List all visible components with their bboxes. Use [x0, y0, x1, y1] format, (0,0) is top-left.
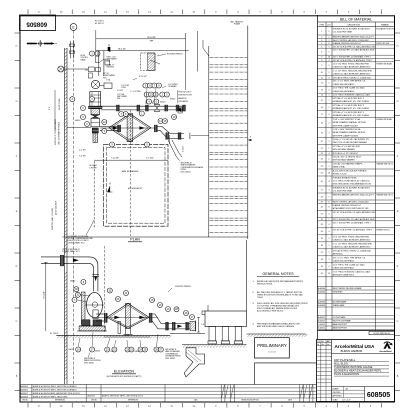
- svg-text:USING E70XX ELECTRODES AND IS: USING E70XX ELECTRODES AND IS TO BE GAS: [257, 293, 303, 296]
- svg-text:G: G: [16, 100, 18, 103]
- svg-text:REMARK: REMARK: [381, 23, 389, 26]
- ArcelorMittal logo mark: [384, 342, 391, 349]
- svg-text:THICKNESS ISOTOPE GAUGE: THICKNESS ISOTOPE GAUGE: [334, 365, 373, 369]
- svg-text:PKG.: PKG.: [107, 61, 111, 63]
- svg-text:2: 2: [329, 31, 330, 33]
- plan: trench vertical line right: [197, 31, 199, 72]
- plan: trench column hatched: [148, 53, 155, 70]
- elev: flow arrow on inlet pipe: [73, 259, 79, 262]
- svg-text:DWG. 608511: DWG. 608511: [84, 362, 94, 364]
- plan: existing trench dashed box: [141, 53, 155, 70]
- svg-text:34: 34: [321, 231, 323, 233]
- elev: hx right flange: [149, 313, 150, 322]
- svg-text:FLANGE, WN DWG. 8220-027-02: FLANGE, WN DWG. 8220-027-02: [333, 204, 361, 207]
- svg-text:4: 4: [329, 224, 330, 226]
- title block outer: [317, 340, 395, 402]
- svg-text:10-31-08: 10-31-08: [268, 352, 275, 354]
- svg-text:36: 36: [321, 245, 323, 247]
- svg-text:PIPING: PIPING: [181, 169, 187, 171]
- plan: balloon on wall line: [70, 97, 75, 102]
- svg-text:14: 14: [321, 95, 323, 97]
- svg-text:DO NOT PRINT No 145: DO NOT PRINT No 145: [373, 333, 390, 335]
- plan: pipe flanges: [116, 105, 117, 111]
- svg-text:CONTROL: CONTROL: [80, 57, 88, 59]
- mill tables: top angled lead: [203, 40, 209, 56]
- svg-text:CLASS 3000, ASTM A105: CLASS 3000, ASTM A105: [333, 259, 354, 262]
- svg-text:MODEL X-TL/20: MODEL X-TL/20: [333, 174, 347, 176]
- svg-text:39: 39: [321, 266, 323, 268]
- svg-text:C: C: [397, 320, 399, 323]
- svg-text:A-60511: A-60511: [88, 395, 96, 398]
- svg-text:1: 1: [329, 219, 330, 221]
- svg-text:1 1/2" 150 THD'D. FLNGD, WELDI: 1 1/2" 150 THD'D. FLNGD, WELDING FRM,: [333, 63, 370, 65]
- svg-text:DWG. 608511: DWG. 608511: [165, 358, 175, 360]
- svg-text:4: 4: [329, 60, 330, 62]
- svg-text:ALL WELDING PER AWS D1.1, LATE: ALL WELDING PER AWS D1.1, LATEST EDITION: [257, 291, 302, 294]
- svg-text:ASTM A197, ASME B16.3: ASTM A197, ASME B16.3: [333, 273, 354, 276]
- svg-text:3/4" DIA. 90 THD'D. UNION, CL,: 3/4" DIA. 90 THD'D. UNION, CL, CLASS 200…: [333, 76, 372, 79]
- svg-text:8: 8: [321, 60, 322, 62]
- svg-text:ArcelorMittal: ArcelorMittal: [379, 350, 392, 353]
- svg-text:608510: 608510: [69, 349, 74, 351]
- svg-text:EXISTING TRENCH: EXISTING TRENCH: [167, 54, 183, 56]
- elev: detail B chute polygon: [184, 348, 204, 377]
- title block bottom section: [332, 386, 395, 388]
- plan: dim line above accumulator: [94, 159, 168, 161]
- svg-text:BLOWER BASE: BLOWER BASE: [333, 301, 347, 304]
- bottom ruler ticks: [27, 403, 29, 408]
- svg-text:3: 3: [321, 40, 322, 42]
- elev: vert dashed centerline through blower: [104, 246, 106, 332]
- svg-text:1 1/2" FLEX: 1 1/2" FLEX: [121, 85, 129, 87]
- plan: blower motor rect: [90, 92, 101, 107]
- elev: balloon near trench: [174, 307, 179, 312]
- svg-text:1 1/2" THD'D. TEE, CLASS 150,: 1 1/2" THD'D. TEE, CLASS 150, GALV,: [333, 87, 366, 90]
- svg-text:608510: 608510: [160, 101, 165, 103]
- svg-text:1 1/2" THD'D. 90 ELBOW, CLASS: 1 1/2" THD'D. 90 ELBOW, CLASS 150, GALV: [333, 94, 371, 97]
- svg-text:A-60505: A-60505: [20, 389, 28, 392]
- svg-text:608510: 608510: [70, 280, 75, 282]
- svg-text:19: 19: [321, 132, 323, 134]
- elev: pipe into hx left: [96, 313, 104, 315]
- BOM left edge: [317, 15, 319, 331]
- svg-text:29: 29: [321, 202, 323, 204]
- svg-text:4: 4: [329, 266, 330, 268]
- svg-text:11: 11: [321, 77, 323, 79]
- svg-text:1 1/2" THD'D. HOSE VALVE, W. C: 1 1/2" THD'D. HOSE VALVE, W. CLASS 150,: [333, 180, 370, 183]
- svg-text:PER HEAT EXCHANGER INSTALLATIO: PER HEAT EXCHANGER INSTALLATION, USE: [257, 322, 300, 325]
- svg-text:2: 2: [329, 72, 330, 74]
- svg-text:H: H: [16, 45, 18, 48]
- svg-text:1/2" OIL: 1/2" OIL: [103, 73, 109, 75]
- empty box below preliminary: [255, 363, 317, 385]
- svg-text:2: 2: [329, 158, 330, 160]
- svg-text:1 1/2" PIPING: 1 1/2" PIPING: [168, 84, 178, 86]
- svg-text:20"/ 2" SCH 40 PIPE, CS, GALV,: 20"/ 2" SCH 40 PIPE, CS, GALV, ASTM A53,…: [333, 218, 375, 221]
- svg-text:METAL FRAMING CHANNEL, ØP1000T: METAL FRAMING CHANNEL, ØP1000T,: [333, 121, 367, 124]
- elev: left dim vertical 8-6: [45, 262, 47, 331]
- svg-text:ATTACHMENT BOLTS SUPPLIED BY V: ATTACHMENT BOLTS SUPPLIED BY VND: [333, 207, 369, 210]
- svg-text:DAMS & SEAL: DAMS & SEAL: [333, 166, 345, 169]
- svg-text:24: 24: [321, 165, 323, 167]
- elev: blower center line: [85, 304, 104, 306]
- svg-text:2" x 1 1/2" THD'D. REDUCER, WE: 2" x 1 1/2" THD'D. REDUCER, WELDING SPRL: [333, 243, 372, 245]
- svg-text:20"/ 3/4" SCH 40 PIPE, CS, AST: 20"/ 3/4" SCH 40 PIPE, CS, ASTM A53, TYP…: [333, 59, 373, 62]
- north arrow: [27, 43, 55, 45]
- svg-text:1 1/2" THD'D. 90 ELBOW, CLASS: 1 1/2" THD'D. 90 ELBOW, CLASS 150, GALV: [333, 270, 371, 273]
- elev: dim bottom 5-10: [104, 336, 150, 338]
- svg-text:2: 2: [321, 36, 322, 38]
- svg-text:30: 30: [321, 207, 323, 209]
- svg-text:33: 33: [321, 224, 323, 226]
- plan: left wall double line w hatch: [64, 48, 66, 384]
- BOM tag rows group1: [318, 286, 395, 288]
- svg-text:9: 9: [321, 65, 322, 67]
- svg-text:608510: 608510: [95, 351, 100, 353]
- svg-text:BLWR & HX EXCH. REPL, SECTIONS: BLWR & HX EXCH. REPL, SECTIONS: [33, 396, 68, 398]
- svg-text:GENERAL NOTES: GENERAL NOTES: [262, 272, 294, 276]
- BOM tag rows group2: [318, 299, 395, 301]
- svg-text:REFERENCES: REFERENCES: [55, 400, 65, 402]
- svg-text:ACCORDINGLY PER MI.25.1: ACCORDINGLY PER MI.25.1: [257, 310, 284, 313]
- plan: leaders from balloons to pipe: [146, 88, 147, 104]
- svg-text:OUTLET BASE: OUTLET BASE: [333, 316, 346, 319]
- svg-text:1: 1: [329, 189, 330, 191]
- do not print strip: [369, 332, 395, 335]
- elev: hx left flange: [104, 313, 105, 322]
- svg-text:BLOWER & HEAT EXCHANGER REPL.: BLOWER & HEAT EXCHANGER REPL.: [334, 369, 382, 373]
- column grid line E dashed full height: [73, 30, 75, 384]
- svg-text:INSTRUCTIONS.: INSTRUCTIONS.: [257, 284, 273, 286]
- svg-text:A-60504: A-60504: [318, 301, 325, 304]
- BOM column verticals: [325, 22, 327, 331]
- svg-text:12: 12: [321, 83, 323, 85]
- plan: leader from pipe end to rolltable: [191, 135, 209, 137]
- svg-text:WITH PIPE CLAMP P1109-EG: WITH PIPE CLAMP P1109-EG: [333, 134, 359, 137]
- svg-text:LINE TO REMAIN IN PLACE: LINE TO REMAIN IN PLACE: [58, 121, 61, 145]
- elev: inlet support column hatched: [82, 292, 86, 324]
- svg-text:7'-4 1/8": 7'-4 1/8": [79, 156, 86, 158]
- preliminary stamp box: [255, 338, 290, 358]
- plan: hx right flange: [154, 125, 155, 132]
- svg-text:20: 20: [321, 141, 323, 143]
- title block divider under company: [332, 353, 395, 355]
- elev: foundation pad under blower: [77, 330, 107, 332]
- svg-text:ArcelorMittal USA: ArcelorMittal USA: [335, 344, 375, 349]
- elev: flange pair on vertical pipe: [92, 274, 99, 276]
- svg-text:HEAT EXCHANGER, AIR DWG. 8440-: HEAT EXCHANGER, AIR DWG. 8440-CCX-01 FT: [333, 194, 375, 197]
- plan: accumulator dashed rect: [104, 144, 168, 226]
- svg-text:WITH PIPE CLAMP P1111-EG: WITH PIPE CLAMP P1111-EG: [333, 124, 359, 127]
- svg-text:22: 22: [321, 153, 323, 155]
- svg-text:1: 1: [329, 100, 330, 102]
- mill tables: left vertical: [208, 46, 210, 237]
- svg-text:1: 1: [329, 259, 330, 261]
- elev: silencer hatched end: [190, 322, 196, 331]
- svg-text:ELEVATION: ELEVATION: [114, 370, 134, 374]
- svg-text:8'-6 3/4": 8'-6 3/4": [44, 291, 46, 298]
- svg-text:1: 1: [329, 36, 330, 38]
- svg-text:16: 16: [321, 107, 323, 109]
- elev: ground line main: [56, 334, 170, 336]
- plan: center dashed line vertical: [129, 110, 131, 236]
- plan: blower casing: [91, 109, 100, 115]
- plan: second dim line: [96, 50, 189, 52]
- svg-text:PRELIMINARY: PRELIMINARY: [257, 343, 287, 348]
- BOM tag rows group3: [318, 315, 395, 317]
- plan: section arrow A: [107, 186, 110, 192]
- svg-text:608510: 608510: [170, 99, 175, 101]
- svg-text:4: 4: [329, 181, 330, 183]
- svg-text:BILL OF MATERIAL: BILL OF MATERIAL: [340, 18, 372, 22]
- svg-text:CLASS 3000, ASTM A105: CLASS 3000, ASTM A105: [333, 83, 354, 86]
- svg-text:INSTALL ALL ANCHORS PER MANUFA: INSTALL ALL ANCHORS PER MANUFACTURER'S: [257, 280, 304, 283]
- svg-text:CLASS 150, GALV, ASTM A197, AS: CLASS 150, GALV, ASTM A197, ASME B16.3: [333, 65, 371, 68]
- svg-text:EXPANSION ANCHOR, STL. ZINC PL: EXPANSION ANCHOR, STL. ZINC PLATED: [333, 100, 370, 103]
- svg-text:FLEXIBLE EXHAUST HOSE,: FLEXIBLE EXHAUST HOSE,: [333, 177, 358, 180]
- plan: filter circle: [91, 80, 99, 88]
- elev: horizontal inlet pipe: [41, 256, 60, 258]
- svg-text:5/8" DIA. x 2" LG. HILTI KWIK: 5/8" DIA. x 2" LG. HILTI KWIK BOLT 3: [333, 111, 364, 114]
- svg-text:CHECKED: CHECKED: [333, 392, 342, 394]
- svg-text:608505: 608505: [367, 392, 390, 399]
- svg-text:CCL 3520 RPM, GEAR: CCL 3520 RPM, GEAR: [333, 31, 353, 34]
- svg-text:EXPANSION ANCHOR, STL. ZINC PL: EXPANSION ANCHOR, STL. ZINC PLATED: [333, 114, 370, 117]
- svg-text:CLASS 150, GALV, ASTM A197, AS: CLASS 150, GALV, ASTM A197, ASME B16.3: [333, 245, 371, 248]
- svg-text:23: 23: [321, 158, 323, 160]
- svg-text:1 5/8" x 13/16" UNISTRUT 14 GA: 1 5/8" x 13/16" UNISTRUT 14 GA.: [333, 128, 362, 131]
- BOM left edge extension to title block: [317, 331, 319, 340]
- left ruler ticks: [15, 32, 20, 34]
- svg-text:1: 1: [329, 52, 330, 54]
- svg-text:WITH NUT AND WASHER: WITH NUT AND WASHER: [333, 148, 355, 151]
- svg-text:1/4-20 x 1" LG. HEX HD. CAP SC: 1/4-20 x 1" LG. HEX HD. CAP SCREW, STL,: [333, 138, 370, 141]
- svg-text:BLWR & HX EXCH. REPL, SECTION: BLWR & HX EXCH. REPL, SECTION & DETAILS: [33, 389, 78, 392]
- svg-text:1/4" DIA. COIL HANGING STRAPS,: 1/4" DIA. COIL HANGING STRAPS,: [333, 163, 363, 166]
- svg-text:1/2" DIA. x 2" LG. HEX HD. BOL: 1/2" DIA. x 2" LG. HEX HD. BOLT: [333, 145, 361, 148]
- svg-text:FIELD ROUTE TO: FIELD ROUTE TO: [178, 92, 192, 94]
- svg-text:ASTM A105: ASTM A105: [333, 252, 343, 255]
- plan: valve on pipe: [154, 105, 160, 112]
- svg-text:MILL BLDG.: MILL BLDG.: [334, 361, 349, 365]
- svg-text:21: 21: [321, 148, 323, 150]
- svg-text:20"/ 1/2" SCH 40 PIPE, CS, GAL: 20"/ 1/2" SCH 40 PIPE, CS, GALV, ASTM A5…: [333, 45, 377, 48]
- elev: blower motor slot: [93, 310, 98, 319]
- svg-text:16: 16: [328, 273, 330, 275]
- svg-text:FIELD THREAD ALL WHERE PIPING: FIELD THREAD ALL WHERE PIPING DOES: [257, 307, 298, 310]
- svg-text:BASE SUPPORT: BASE SUPPORT: [333, 323, 348, 326]
- svg-text:4: 4: [329, 90, 330, 92]
- svg-text:CLASS 2000, ASTM A105: CLASS 2000, ASTM A105: [333, 266, 354, 269]
- plan: left dashed vertical: [93, 161, 95, 229]
- column grid bubble E: [70, 24, 77, 31]
- svg-text:1: 1: [329, 245, 330, 247]
- svg-text:(2) 1/2" DIA LINES: (2) 1/2" DIA LINES: [55, 200, 58, 215]
- svg-text:20"/ 2" SCH 40 PIPE, CS, GALV,: 20"/ 2" SCH 40 PIPE, CS, GALV, ASTM A53,…: [333, 49, 375, 52]
- svg-text:HOSE: HOSE: [80, 55, 85, 57]
- svg-text:5/8" DIA. x 5" LG. HILTI KWIK: 5/8" DIA. x 5" LG. HILTI KWIK BOLT 3: [333, 97, 364, 100]
- svg-text:4: 4: [329, 77, 330, 79]
- svg-text:4'-1 3/8": 4'-1 3/8": [117, 90, 124, 92]
- elev: foundation block: [205, 311, 247, 326]
- elev: hx support stands: [118, 322, 121, 334]
- svg-text:BLWR & HX EXCH. REPL, SECTION: BLWR & HX EXCH. REPL, SECTION & DETAILS: [33, 385, 78, 388]
- svg-text:38'-6 3/8": 38'-6 3/8": [147, 37, 156, 39]
- svg-text:EXIST. 1 1/2": EXIST. 1 1/2": [107, 57, 117, 59]
- plan: funnel to discharge: [168, 140, 180, 161]
- svg-text:EXISTING FLOOR: EXISTING FLOOR: [178, 95, 192, 97]
- svg-text:DWG. 8930, ASTM, GTM, ASME AND: DWG. 8930, ASTM, GTM, ASME AND NYLON: [333, 183, 372, 186]
- svg-text:25: 25: [321, 172, 323, 174]
- svg-text:DWG No: DWG No: [22, 400, 28, 402]
- elev: base plate line: [79, 325, 105, 327]
- elev: ground line right extension: [247, 333, 307, 335]
- svg-text:1: 1: [329, 132, 330, 134]
- BOM title row: [318, 21, 395, 23]
- plan: balloons mid: [119, 112, 124, 117]
- svg-text:1 1/2" 150 THD'D. FLNGD, WELDI: 1 1/2" 150 THD'D. FLNGD, WELDING FRM,: [333, 236, 370, 238]
- plan: top dimension line 38ft: [96, 38, 186, 40]
- svg-text:EXISTING TRENCH: EXISTING TRENCH: [175, 286, 191, 288]
- svg-text:608505: 608505: [26, 21, 47, 28]
- BOM bottom edge: [318, 330, 395, 332]
- svg-text:REVISION DESCRIPTION: REVISION DESCRIPTION: [241, 400, 258, 402]
- svg-text:¢: ¢: [250, 137, 251, 139]
- svg-text:D: D: [397, 265, 399, 268]
- elev: hx rhombus: [107, 303, 149, 328]
- svg-text:A-60511: A-60511: [318, 316, 325, 319]
- svg-text:8'-0": 8'-0": [49, 106, 51, 110]
- mill tables: roller dashed lines: [210, 57, 248, 59]
- svg-text:C: C: [16, 320, 18, 323]
- svg-text:FLANGE, WN DWG. 8220-027-02: FLANGE, WN DWG. 8220-027-02: [333, 42, 361, 45]
- svg-text:PKG.: PKG.: [117, 98, 121, 100]
- svg-text:37: 37: [321, 252, 323, 254]
- svg-text:CLASS 150, GALV, ASTM A197, AS: CLASS 150, GALV, ASTM A197, ASME B16.3: [333, 238, 371, 241]
- svg-text:2: 2: [329, 114, 330, 116]
- plan: pipe right of hx with z-bend: [157, 127, 184, 134]
- svg-text:1 5/8" x 1 5/8" UNISTRUT 12 GA: 1 5/8" x 1 5/8" UNISTRUT 12 GA.: [333, 118, 361, 121]
- svg-text:27: 27: [321, 189, 323, 191]
- svg-text:NYLON 6.6 x 1 1/2" CBL BOLT: NYLON 6.6 x 1 1/2" CBL BOLT: [333, 153, 359, 155]
- svg-text:EXISTING: EXISTING: [107, 67, 115, 69]
- svg-text:CONN. TO: CONN. TO: [107, 65, 115, 67]
- svg-text:EXPANSION ANCHOR, STL. ZINC PL: EXPANSION ANCHOR, STL. ZINC PLATED: [333, 107, 370, 110]
- plan: balloons left of blower: [81, 106, 86, 111]
- svg-text:FURNISH ON CCL: FURNISH ON CCL: [376, 229, 390, 231]
- svg-text:AND SUPPLIED WELD NECK FLANGES: AND SUPPLIED WELD NECK FLANGES.: [257, 325, 295, 328]
- svg-text:& FILTER: & FILTER: [89, 167, 97, 169]
- svg-text:20"/ 1" SCH 40 PIPE, CS, ASTM: 20"/ 1" SCH 40 PIPE, CS, ASTM A53, TYPE …: [333, 56, 372, 59]
- svg-text:40: 40: [321, 273, 323, 275]
- elev: hx center band hatched: [125, 303, 130, 328]
- svg-text:38: 38: [321, 259, 323, 261]
- svg-text:10: 10: [321, 72, 323, 74]
- svg-text:8: 8: [329, 207, 330, 209]
- svg-text:26: 26: [321, 181, 323, 183]
- svg-text:15: 15: [321, 100, 323, 102]
- svg-text:INLET SWIVEL WELDING FRAME: INLET SWIVEL WELDING FRAME: [333, 287, 362, 290]
- BOM desc texts clipped: [333, 28, 377, 277]
- plan: blower base rect: [91, 118, 100, 127]
- svg-text:608510: 608510: [75, 120, 80, 122]
- svg-text:2'-6 1/2": 2'-6 1/2": [183, 145, 185, 152]
- svg-text:ELEVATOR RD GL BLOWER, ROYAL M: ELEVATOR RD GL BLOWER, ROYAL MODY: [333, 187, 371, 190]
- svg-text:2: 2: [329, 238, 330, 240]
- svg-text:6: 6: [321, 52, 322, 54]
- svg-text:EXISTING WALL COLUMN: EXISTING WALL COLUMN: [51, 207, 54, 230]
- title block left revision grid: [331, 340, 333, 402]
- svg-text:2: 2: [329, 122, 330, 124]
- elev: inlet flange plate vertical: [60, 255, 63, 266]
- svg-text:PLANE: PLANE: [234, 23, 241, 26]
- svg-text:1: 1: [329, 148, 330, 150]
- svg-text:CCL 3520 RPM, GEAR: CCL 3520 RPM, GEAR: [333, 190, 353, 193]
- svg-text:20"/ 1/2" SCH 40 PIPE, CS, GAL: 20"/ 1/2" SCH 40 PIPE, CS, GALV, ASTM A5…: [333, 211, 377, 214]
- svg-text:EXISTING 6" COOLING WATER: EXISTING 6" COOLING WATER: [54, 118, 57, 145]
- svg-text:35: 35: [321, 238, 323, 240]
- svg-text:INLET CONTROL, AIR DWG. 127443: INLET CONTROL, AIR DWG. 127443-4X02: [333, 201, 369, 204]
- svg-text:A-60504: A-60504: [20, 385, 28, 388]
- svg-text:EL.585'-0": EL.585'-0": [95, 23, 104, 25]
- elev: discharge pipe w flanges: [164, 323, 190, 325]
- svg-text:1/2" DIA. x 4" LG. HILTI KWIK: 1/2" DIA. x 4" LG. HILTI KWIK BOLT 3: [333, 104, 364, 107]
- svg-text:H: H: [397, 45, 399, 48]
- svg-text:A-12-1-1/2R-G-GRV-N-N-M-P FLEX: A-12-1-1/2R-G-GRV-N-N-M-P FLEXIBLE: [333, 170, 367, 173]
- svg-text:2" x 1 1/2" THD'D. REDUCER, WE: 2" x 1 1/2" THD'D. REDUCER, WELDING SPRL: [333, 70, 372, 72]
- revision table rows: [20, 387, 317, 389]
- plan: hose stand valve circle: [58, 66, 64, 72]
- svg-text:32: 32: [321, 219, 323, 221]
- svg-text:5/16-18 x 3/4" LG. HEX HD. BOL: 5/16-18 x 3/4" LG. HEX HD. BOLT: [333, 157, 362, 159]
- svg-text:1: 1: [329, 196, 330, 198]
- plan: leader arrows upper: [150, 60, 160, 64]
- plan: pipe into hx left: [100, 126, 118, 128]
- svg-text:5'-10": 5'-10": [125, 335, 130, 337]
- svg-text:EL. 585'-0": EL. 585'-0": [50, 333, 59, 335]
- svg-text:& FIELD ROUTE 1/4" LINE TO: & FIELD ROUTE 1/4" LINE TO: [67, 240, 89, 242]
- svg-text:16: 16: [328, 172, 330, 174]
- elev: dim vertical right of discharge: [198, 317, 200, 332]
- svg-text:3/4" DIA. 90 THD'D. UNION, CL,: 3/4" DIA. 90 THD'D. UNION, CL, CLASS 200…: [333, 249, 372, 252]
- svg-text:TIGHT.: TIGHT.: [257, 297, 264, 299]
- elev: hx center flow line w arrows: [96, 316, 158, 318]
- plan: section flag A right: [178, 107, 182, 113]
- svg-text:HEAT EXCHANGER, AIR DWG. 8440-: HEAT EXCHANGER, AIR DWG. 8440-CCX-01 FT: [333, 36, 375, 39]
- svg-text:DWG No: DWG No: [91, 400, 97, 402]
- elev: down arrow in pipe: [94, 277, 97, 282]
- svg-text:17: 17: [321, 114, 323, 116]
- BOM remark texts clipped: [376, 28, 397, 232]
- plan: blower discharge stub: [92, 128, 98, 133]
- svg-text:2: 2: [329, 40, 330, 42]
- svg-text:1: 1: [329, 165, 330, 167]
- right ruler ticks: [395, 32, 400, 34]
- svg-text:4: 4: [329, 153, 330, 155]
- svg-text:1: 1: [329, 141, 330, 143]
- elev: excavation line under piers: [182, 344, 247, 346]
- svg-text:A-60507: A-60507: [20, 392, 28, 395]
- svg-text:INLET FLOW FRAME: INLET FLOW FRAME: [333, 320, 352, 323]
- svg-text:20"/ 1" SCH 40 PIPE, CS, ASTM: 20"/ 1" SCH 40 PIPE, CS, ASTM A53, TYPE …: [333, 221, 372, 224]
- svg-text:4: 4: [329, 231, 330, 233]
- svg-text:1: 1: [321, 31, 322, 33]
- svg-text:6'-10 1/2": 6'-10 1/2": [139, 76, 147, 78]
- svg-text:5: 5: [321, 46, 322, 48]
- svg-text:1: 1: [329, 252, 330, 254]
- plan: hx center line w arrows: [100, 127, 157, 129]
- svg-text:1 1/2" THD'D. TEE, CLASS 150,: 1 1/2" THD'D. TEE, CLASS 150, GALV,: [333, 263, 366, 266]
